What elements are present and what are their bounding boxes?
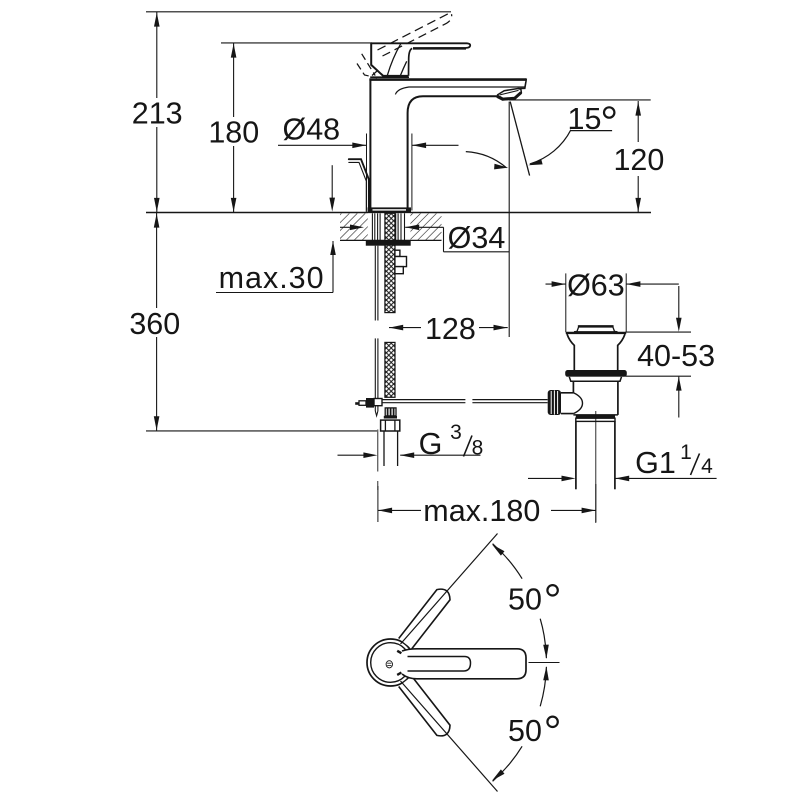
faucet handle housing facet line xyxy=(371,65,377,76)
15 degree leader line and arc xyxy=(571,130,612,132)
clamping nut block 2 xyxy=(395,257,407,267)
40-53 lower arrow (up) xyxy=(676,377,682,391)
drain centerline xyxy=(595,411,597,523)
pop-up rod end small box xyxy=(359,401,366,406)
top view faucet body outer circle xyxy=(367,639,414,686)
Ø34 left arrow xyxy=(340,226,350,228)
svg-text:50: 50 xyxy=(508,583,542,617)
hose end collar xyxy=(384,416,397,419)
extension line bottom of 360 (supply connection level) xyxy=(146,430,377,432)
faucet base plate on countertop xyxy=(368,207,411,212)
dimension 360 arrow up xyxy=(154,214,160,228)
drain body right wall xyxy=(617,381,619,415)
faucet spout top edge xyxy=(369,78,526,81)
svg-text:180: 180 xyxy=(208,115,259,149)
svg-text:8: 8 xyxy=(472,436,484,459)
svg-text:50: 50 xyxy=(508,714,542,748)
drain gasket lip xyxy=(569,377,621,381)
Ø48 extension line left xyxy=(366,134,368,211)
hose end ridged fitting xyxy=(385,408,396,416)
40-53 lower extension line xyxy=(625,375,691,377)
svg-text:120: 120 xyxy=(613,143,664,177)
handle raised position dashed back edge xyxy=(362,54,376,76)
top view horizontal centerline right xyxy=(529,662,560,664)
top view handle ghost position upper (+50) xyxy=(399,589,450,649)
clamping nut block 1 xyxy=(395,250,400,256)
dimension 180 arrow down xyxy=(231,198,237,212)
top view 50 degree line lower xyxy=(401,681,498,792)
drain body bottom xyxy=(573,414,618,416)
Ø48 right arrow xyxy=(412,143,426,149)
drain body left wall xyxy=(572,381,574,393)
faucet handle lever blade top xyxy=(371,43,471,48)
dimension 120 vertical line xyxy=(637,101,639,142)
handle raised position dashed lower edge xyxy=(383,14,452,56)
drain outlet collar lower ring xyxy=(576,418,615,421)
drain flange cone left xyxy=(567,334,574,370)
svg-text:Ø48: Ø48 xyxy=(282,112,340,146)
G3/8 dimension line xyxy=(338,454,364,456)
40-53 upper extension line xyxy=(625,331,691,333)
top view handle ghost position lower (-50) xyxy=(399,676,450,736)
faucet handle interior curve 2 xyxy=(401,61,407,75)
svg-text:max.180: max.180 xyxy=(423,494,540,528)
faucet handle lever blade underside (dark) xyxy=(413,47,466,49)
washer plate under counter xyxy=(366,241,411,246)
faucet aerator dark underside xyxy=(498,93,522,100)
faucet spout right face xyxy=(518,79,526,89)
Ø63 extension lines xyxy=(565,273,567,332)
countertop cross-section hatching xyxy=(340,213,442,240)
svg-text:3: 3 xyxy=(450,421,462,444)
drain plug cap xyxy=(579,325,613,327)
handle raised position dashed top edge xyxy=(378,12,451,50)
dimension 360 arrow down xyxy=(154,416,160,430)
pop-up rod end tip xyxy=(355,402,359,405)
top view faucet body inner circle xyxy=(371,643,411,683)
svg-text:40-53: 40-53 xyxy=(637,339,715,373)
faucet spout inner top line xyxy=(395,87,524,94)
drain tailpipe xyxy=(575,421,577,489)
Ø48 leader line with arrow xyxy=(278,144,366,146)
spray angle arc left xyxy=(466,152,507,168)
pop-up linkage horizontal rod xyxy=(381,399,465,401)
top view 50 degree line upper xyxy=(401,534,498,645)
drain pull-rod knob (knurled) xyxy=(548,390,561,415)
pop-up rod joint white box xyxy=(374,399,382,406)
supply pipe below nut xyxy=(383,431,385,466)
dimension 128 arrow left xyxy=(389,325,403,331)
handle raised position dashed bottom stub xyxy=(357,64,377,78)
dimension 213 arrow down xyxy=(154,198,160,212)
G3/8 connection nut xyxy=(381,420,400,431)
max.180 dimension line xyxy=(378,508,392,514)
dimension 120 arrow down xyxy=(635,198,641,212)
extension line top (213 upper reference) xyxy=(146,11,451,13)
dimension 120 arrow up xyxy=(635,102,641,116)
clamping nut block 3 xyxy=(395,267,403,274)
svg-text:4: 4 xyxy=(701,455,713,478)
Ø34 right arrow with leader xyxy=(405,225,419,231)
top view 50 degree arc upper xyxy=(493,544,522,579)
top view logo mark xyxy=(386,661,392,668)
max.180 left extension line xyxy=(377,486,379,522)
top view handle lever inner contour xyxy=(408,657,471,672)
water stream 15 degree line xyxy=(510,102,529,176)
drain flange cone right xyxy=(618,334,625,370)
dimension 213 arrow up xyxy=(154,13,160,27)
dimension 213 vertical line xyxy=(156,12,158,98)
drain flange top xyxy=(566,332,626,334)
svg-text:max.30: max.30 xyxy=(219,261,325,295)
pop-up rod vertical pair below washer xyxy=(374,246,376,321)
faucet spout underside and inner corner xyxy=(408,96,498,207)
flexible hose braided section lower xyxy=(385,342,395,397)
drain knob neck xyxy=(561,393,574,414)
dimension 180 vertical line xyxy=(233,43,235,117)
faucet centerline below supply xyxy=(377,430,379,472)
dimension 360 vertical line xyxy=(156,213,158,308)
faucet handle neck front edge xyxy=(409,48,413,76)
pop-up rod end dark block xyxy=(366,398,374,408)
faucet handle housing left edge xyxy=(371,43,408,76)
top view 50 degree arc lower xyxy=(540,667,546,706)
dimension 180 arrow up xyxy=(231,44,237,58)
Ø48 extension line right xyxy=(411,134,413,211)
max.180 right extension line xyxy=(595,484,597,522)
max.30 lower arrow (pointing up to counter bottom) xyxy=(330,241,336,255)
mounting shank sleeve lines in hole xyxy=(371,213,373,240)
faucet aerator inner line xyxy=(500,90,519,95)
faucet aerator body xyxy=(497,89,521,101)
countertop hole clearance (white) xyxy=(368,213,411,240)
dimension 128 line xyxy=(389,327,421,329)
extension line 180 (handle top reference) xyxy=(221,42,372,44)
max.30 upper arrow (pointing down to counter) xyxy=(331,165,333,198)
svg-text:128: 128 xyxy=(425,312,476,346)
drain outlet collar dark band xyxy=(576,415,615,418)
G1 1/4 dimension line xyxy=(528,477,562,479)
top view ghost lever base ticks xyxy=(397,651,401,653)
countertop bottom line xyxy=(340,239,442,241)
threaded shank braided section upper xyxy=(385,213,395,312)
pop-up pull rod knob (behind faucet) xyxy=(349,159,369,212)
pop-up rod tapered tip xyxy=(375,411,378,416)
svg-text:213: 213 xyxy=(132,97,183,131)
faucet body top junction line xyxy=(370,76,409,78)
Ø34 label leader box xyxy=(443,227,445,252)
top view handle lever outline xyxy=(402,649,526,679)
dimension 128 arrow right xyxy=(494,325,508,331)
max.30 leader underline xyxy=(216,292,333,294)
spout outlet vertical reference line xyxy=(508,102,510,337)
drain rubber gasket xyxy=(565,370,627,377)
Ø63 dimension line and arrows xyxy=(546,283,566,285)
svg-text:360: 360 xyxy=(129,307,180,341)
svg-text:Ø34: Ø34 xyxy=(448,221,506,255)
countertop surface line xyxy=(146,212,651,214)
svg-text:G1: G1 xyxy=(635,446,676,480)
40-53 upper arrow (down) xyxy=(678,286,680,319)
faucet body left edge xyxy=(369,79,371,208)
extension line spout outlet level xyxy=(509,99,651,101)
svg-text:1: 1 xyxy=(680,441,692,464)
faucet handle interior curve 1 xyxy=(387,44,400,75)
svg-text:Ø63: Ø63 xyxy=(567,269,625,303)
